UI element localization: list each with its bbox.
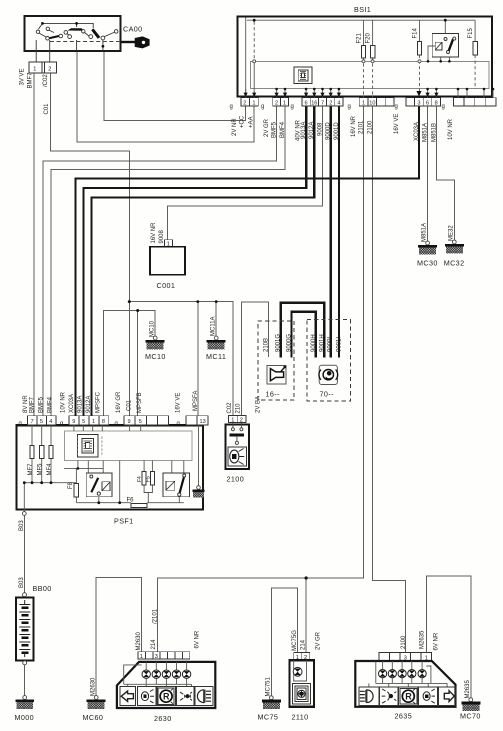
- svg-text:F21: F21: [357, 32, 363, 43]
- svg-text:8V NR: 8V NR: [23, 395, 29, 413]
- svg-text:CA00: CA00: [123, 25, 143, 34]
- svg-text:2V GR: 2V GR: [264, 118, 270, 137]
- svg-text:210: 210: [236, 403, 242, 414]
- svg-text:g: g: [291, 104, 294, 110]
- svg-text:BMF4: BMF4: [280, 121, 286, 138]
- svg-text:2630: 2630: [154, 714, 172, 723]
- svg-text:1: 1: [362, 101, 365, 107]
- svg-text:g: g: [60, 421, 63, 427]
- svg-text:2100: 2100: [368, 120, 374, 134]
- svg-text:BB00: BB00: [33, 584, 52, 593]
- svg-text:5: 5: [139, 419, 142, 425]
- svg-text:16V NR: 16V NR: [351, 115, 357, 137]
- svg-text:M2635: M2635: [419, 630, 425, 649]
- svg-text:13: 13: [200, 419, 206, 425]
- svg-text:10: 10: [369, 101, 375, 107]
- svg-text:XC03A: XC03A: [69, 394, 75, 413]
- svg-text:2100: 2100: [401, 635, 407, 649]
- svg-text:3: 3: [155, 654, 158, 660]
- svg-text:MF5: MF5: [38, 463, 44, 476]
- svg-text:2: 2: [240, 417, 243, 423]
- svg-text:F4: F4: [137, 476, 143, 482]
- svg-text:BMF5: BMF5: [272, 121, 278, 138]
- svg-text:6: 6: [426, 101, 429, 107]
- svg-text:BMF7: BMF7: [28, 72, 34, 89]
- svg-text:1: 1: [33, 67, 36, 73]
- svg-text:9012A: 9012A: [309, 122, 315, 139]
- svg-text:2110: 2110: [292, 713, 309, 722]
- svg-text:2V BA: 2V BA: [256, 396, 262, 413]
- svg-text:B03: B03: [19, 577, 25, 588]
- svg-text:BMF5: BMF5: [39, 396, 45, 413]
- svg-text:M2630: M2630: [90, 677, 96, 696]
- svg-text:F20: F20: [366, 32, 372, 43]
- svg-text:MF4: MF4: [47, 463, 53, 476]
- svg-text:1: 1: [252, 101, 255, 107]
- svg-text:9001I: 9001I: [337, 337, 343, 352]
- svg-text:4: 4: [337, 101, 340, 107]
- svg-text:BMF7: BMF7: [30, 396, 36, 413]
- svg-text:2: 2: [48, 67, 51, 73]
- svg-text:g: g: [115, 421, 118, 427]
- svg-text:1: 1: [231, 417, 234, 423]
- svg-text:9001D: 9001D: [334, 122, 340, 140]
- svg-text:ME32: ME32: [448, 225, 454, 241]
- svg-text:2635: 2635: [395, 712, 413, 721]
- svg-text:g: g: [261, 104, 264, 110]
- svg-text:9013A: 9013A: [78, 396, 84, 413]
- svg-text:9001G: 9001G: [276, 334, 282, 352]
- svg-text:R: R: [163, 692, 170, 702]
- svg-text:MC70: MC70: [460, 712, 481, 721]
- svg-text:+CC: +CC: [240, 115, 246, 128]
- svg-text:MC11A: MC11A: [210, 316, 216, 336]
- svg-text:M2635: M2635: [465, 679, 471, 698]
- svg-text:9013A: 9013A: [301, 122, 307, 139]
- svg-text:PSF1: PSF1: [114, 517, 134, 526]
- svg-text:9: 9: [72, 419, 75, 425]
- svg-text:70--: 70--: [320, 390, 335, 399]
- svg-text:9000G: 9000G: [287, 334, 293, 352]
- svg-text:9000I: 9000I: [328, 337, 334, 352]
- svg-text:MC75: MC75: [258, 713, 279, 722]
- svg-text:1: 1: [92, 419, 95, 425]
- svg-text:9000D: 9000D: [326, 122, 332, 140]
- svg-text:F15: F15: [468, 27, 474, 38]
- svg-text:/C02: /C02: [43, 74, 49, 87]
- svg-text:M851B: M851B: [431, 123, 437, 142]
- svg-text:C01: C01: [127, 399, 133, 411]
- svg-text:8: 8: [435, 101, 438, 107]
- svg-text:16V GR: 16V GR: [116, 391, 122, 413]
- svg-text:10V NR: 10V NR: [61, 391, 67, 413]
- svg-text:16--: 16--: [266, 390, 281, 399]
- svg-text:MPSFB: MPSFB: [137, 392, 143, 413]
- svg-text:M851A: M851A: [423, 123, 429, 142]
- svg-text:g: g: [177, 421, 180, 427]
- svg-text:1: 1: [140, 654, 143, 660]
- svg-text:9000H: 9000H: [311, 334, 317, 352]
- svg-text:4: 4: [49, 419, 52, 425]
- svg-text:F6: F6: [127, 498, 135, 504]
- svg-text:214: 214: [151, 639, 157, 650]
- svg-text:MC60: MC60: [83, 713, 104, 722]
- svg-text:7: 7: [31, 419, 34, 425]
- svg-text:MC32: MC32: [444, 259, 465, 268]
- svg-text:6V NR: 6V NR: [434, 632, 440, 650]
- svg-text:MC10: MC10: [149, 320, 155, 337]
- svg-text:16V NR: 16V NR: [151, 222, 157, 244]
- svg-text:2: 2: [275, 101, 278, 107]
- svg-text:F5: F5: [146, 476, 152, 482]
- svg-text:214: 214: [301, 639, 307, 650]
- svg-text:g: g: [442, 104, 445, 110]
- svg-text:B03: B03: [19, 520, 25, 531]
- svg-text:10V NR: 10V NR: [448, 118, 454, 140]
- svg-text:C02: C02: [227, 402, 233, 414]
- svg-text:BMF4: BMF4: [48, 396, 54, 413]
- svg-text:6V NR: 6V NR: [195, 630, 201, 648]
- svg-text:9001H: 9001H: [319, 334, 325, 352]
- svg-text:g: g: [230, 104, 233, 110]
- svg-text:g: g: [19, 421, 22, 427]
- svg-text:F8: F8: [68, 481, 74, 489]
- svg-text:2V NR: 2V NR: [232, 118, 238, 136]
- svg-text:+AA: +AA: [249, 116, 255, 128]
- svg-text:210B: 210B: [264, 338, 270, 352]
- svg-text:9008: 9008: [159, 229, 165, 243]
- svg-text:6: 6: [305, 101, 308, 107]
- svg-text:8: 8: [102, 419, 105, 425]
- svg-text:2: 2: [243, 101, 246, 107]
- svg-text:9012A: 9012A: [86, 396, 92, 413]
- svg-text:MC751: MC751: [265, 676, 271, 696]
- svg-text:MPSFA: MPSFA: [193, 391, 199, 411]
- svg-text:3: 3: [417, 101, 420, 107]
- svg-text:F14: F14: [413, 27, 419, 38]
- svg-text:MPSFC: MPSFC: [96, 391, 102, 413]
- svg-text:XC03A: XC03A: [414, 122, 420, 141]
- svg-text:5: 5: [40, 419, 43, 425]
- svg-text:1: 1: [283, 101, 286, 107]
- svg-text:5: 5: [82, 419, 85, 425]
- svg-text:C01: C01: [44, 103, 50, 115]
- svg-text:g: g: [348, 104, 351, 110]
- svg-text:M2630: M2630: [136, 631, 142, 650]
- svg-text:16V VE: 16V VE: [176, 393, 182, 413]
- svg-text:2100: 2100: [227, 475, 245, 484]
- svg-text:9008: 9008: [317, 122, 323, 136]
- svg-text:/2101: /2101: [152, 608, 158, 624]
- svg-text:M851A: M851A: [422, 223, 428, 242]
- svg-text:3V VE: 3V VE: [20, 68, 26, 85]
- svg-text:g: g: [395, 104, 398, 110]
- svg-text:M000: M000: [15, 713, 35, 722]
- svg-text:BSI1: BSI1: [354, 5, 371, 14]
- svg-text:R: R: [405, 692, 412, 702]
- svg-text:MC11: MC11: [206, 352, 226, 361]
- svg-text:9: 9: [128, 419, 131, 425]
- svg-text:MC30: MC30: [417, 259, 438, 268]
- svg-text:2: 2: [329, 101, 332, 107]
- svg-text:MC10: MC10: [145, 352, 166, 361]
- svg-text:MC75G: MC75G: [292, 630, 298, 651]
- svg-text:C001: C001: [157, 281, 176, 290]
- svg-text:2101: 2101: [359, 120, 365, 134]
- svg-text:16V VE: 16V VE: [394, 114, 400, 134]
- svg-text:16: 16: [311, 101, 317, 107]
- svg-text:2V GR: 2V GR: [316, 631, 322, 650]
- svg-text:7: 7: [321, 101, 324, 107]
- svg-text:MF7: MF7: [28, 463, 34, 476]
